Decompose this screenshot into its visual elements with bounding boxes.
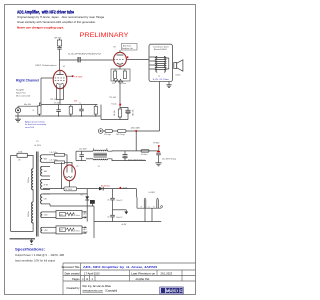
svg-text:Great similarity with Yamamoto: Great similarity with Yamamoto AD1 ampli… [17,20,96,24]
svg-text:10k 10w: 10k 10w [114,109,116,116]
svg-text:for best hum sensitivity: for best hum sensitivity [25,123,47,126]
svg-text:1,25V: 1,25V [44,215,48,217]
svg-text:270: 270 [18,159,21,161]
svg-text:+BG, 340V: +BG, 340V [131,127,141,129]
svg-text:Input sensitivity: 0,9V for f: Input sensitivity: 0,9V for full output [15,260,55,263]
svg-text:29.1.2023: 29.1.2023 [161,272,173,276]
svg-text:100u 1V: 100u 1V [116,200,123,202]
svg-text:C: C [180,288,183,293]
svg-text:230Vac: 230Vac [28,177,30,183]
svg-text:S: S [173,288,176,293]
svg-text:TP 150V: TP 150V [65,189,73,191]
svg-text:AD1, NF2 Amplifier by H. Anza: AD1, NF2 Amplifier by H. Anzai, JAPAN [83,265,157,269]
svg-text:NF2 Telefunken: NF2 Telefunken [36,65,57,67]
svg-text:Date created: Date created [65,272,80,276]
svg-text:U2: U2 [107,217,109,219]
svg-text:1,25 Vrms: 1,25 Vrms [73,215,80,217]
svg-text:+6,2V: +6,2V [122,187,128,189]
svg-text:Adjust local resistor: Adjust local resistor [25,120,45,123]
svg-text:Connection: Connection [153,45,169,48]
svg-text:100k 5 rings: 100k 5 rings [116,134,125,136]
svg-text:Last Revision on: Last Revision on [131,272,156,275]
svg-text:I: I [177,288,178,293]
svg-text:TP, 90V: TP, 90V [74,76,83,78]
svg-text:4k7: 4k7 [60,230,63,232]
svg-text:AD1: AD1 [84,228,87,231]
svg-text:V2: V2 [76,166,78,168]
svg-text:Amplifier Part: Amplifier Part [136,278,150,281]
svg-text:T1: T1 [158,76,160,78]
svg-text:Max 30k: Max 30k [24,104,31,106]
svg-text:1,25V: 1,25V [44,230,48,232]
svg-text:Noise Free: Noise Free [16,93,27,95]
svg-text:BY 255 fast: BY 255 fast [101,184,110,187]
svg-text:MP, 35V: MP, 35V [55,37,62,39]
svg-text:1,25 Vrms: 1,25 Vrms [73,230,80,232]
svg-text:0,35w: 0,35w [176,75,182,77]
svg-text:17-April-2010: 17-April-2010 [84,272,100,276]
svg-text:Dipl. Ing. Jan van de Wiele: Dipl. Ing. Jan van de Wiele [83,285,112,288]
svg-text:P1: P1 [36,141,38,143]
svg-text:Right: Right [84,231,88,234]
svg-text:1u: 1u [79,103,81,105]
svg-text:Specifications:: Specifications: [15,247,45,251]
svg-text:near 10k: near 10k [25,126,35,129]
svg-text:Pages: Pages [72,277,80,281]
svg-text:Document Title: Document Title [62,265,80,269]
svg-text:TP 385V: TP 385V [153,143,160,145]
svg-text:Right Channel: Right Channel [16,78,39,82]
svg-text:Never use cheaper coupling cap: Never use cheaper coupling caps. [17,27,64,30]
svg-text:5k 5 rings: 5k 5 rings [104,134,111,136]
svg-text:T3: T3 [98,166,100,168]
svg-text:2x NF2: 2x NF2 [149,192,156,194]
svg-text:6,7k / 8 Ohm: 6,7k / 8 Ohm [153,79,170,81]
svg-text:300V: 300V [44,171,48,173]
svg-text:300V: 300V [44,158,48,160]
svg-text:474: 474 [112,83,115,85]
svg-text:4k7: 4k7 [60,214,63,216]
svg-text:Original design by H.Anzai, Ja: Original design by H.Anzai, Japan. Also … [17,15,105,19]
svg-text:50u 350V Vishay: 50u 350V Vishay [162,159,176,161]
svg-text:+6,3V: +6,3V [121,224,127,226]
svg-text:Klangfilm: Klangfilm [16,90,25,92]
svg-text:CP1: CP1 [80,195,83,197]
svg-text:AD1: AD1 [84,212,87,215]
svg-text:PRELIMINARY: PRELIMINARY [80,32,130,39]
svg-text:Output Power = 4 Watt @ 5 ...: Output Power = 4 Watt @ 5 ... 40kHz, 3dB [15,254,65,257]
svg-text:of: of [86,278,88,281]
svg-text:Must connected: Must connected [16,95,30,98]
svg-text:6,3V: 6,3V [44,199,47,201]
svg-text:TP1 (0V): TP1 (0V) [50,99,58,101]
svg-text:100u 10v: 100u 10v [132,109,134,116]
svg-text:5,6uF/630V/630V/2: 5,6uF/630V/630V/2 [68,54,101,56]
svg-text:Amplitron Lab: Amplitron Lab [122,47,132,50]
svg-text:47u 63v: 47u 63v [54,103,60,105]
svg-text:4k Ohms: 4k Ohms [141,154,148,156]
svg-text:23u 450V: 23u 450V [79,148,87,150]
svg-text:1k: 1k [33,110,35,112]
svg-text:Tweak: Tweak [111,103,116,105]
svg-text:100u 1V: 100u 1V [116,217,123,219]
svg-text:A, 300V: A, 300V [35,144,42,147]
svg-text:TPL 40V: TPL 40V [109,97,117,99]
svg-text:230Vac: 230Vac [28,211,30,217]
svg-text:Created by: Created by [66,286,80,290]
svg-text:470u 450V Vishay: 470u 450V Vishay [128,159,145,161]
svg-text:Board 8HU: Board 8HU [154,49,168,51]
svg-text:AD1 Amplifier, with NF2 drive: AD1 Amplifier, with NF2 driver tube [17,10,74,16]
svg-text:U1: U1 [107,200,109,202]
